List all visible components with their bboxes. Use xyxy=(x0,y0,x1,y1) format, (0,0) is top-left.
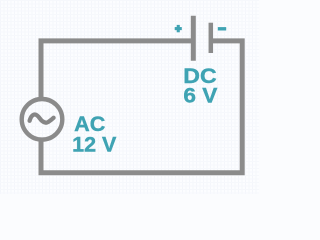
wire top-left: from battery long plate to top-left corner down to AC source xyxy=(41,41,193,99)
svg-text:12 V: 12 V xyxy=(72,134,116,157)
AC sine wave symbol xyxy=(30,115,54,123)
battery short plate (negative) xyxy=(209,23,214,53)
AC source circle xyxy=(22,99,63,140)
minus sign xyxy=(218,27,226,30)
wire bottom loop: AC source down, bottom, right side up to battery short plate xyxy=(41,41,242,173)
background grid xyxy=(0,0,259,194)
svg-text:6 V: 6 V xyxy=(183,85,217,108)
battery long plate (positive) xyxy=(191,16,196,61)
plus sign xyxy=(175,25,182,32)
svg-text:AC: AC xyxy=(74,113,105,136)
